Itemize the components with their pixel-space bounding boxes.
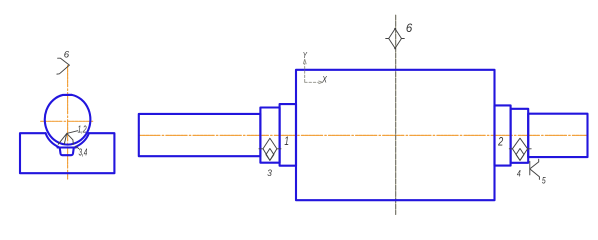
wire: left figure vertical centerline — [67, 66, 69, 180]
right bearing housing — [495, 105, 511, 165]
svg-text:4: 4 — [517, 168, 521, 178]
main cylinder body — [296, 70, 495, 200]
seat shoulder — [58, 146, 76, 148]
svg-text:2: 2 — [497, 137, 503, 149]
svg-text:3: 3 — [267, 168, 272, 179]
svg-text:1,2: 1,2 — [78, 124, 87, 135]
leader fan to contact points — [58, 131, 79, 149]
left bearing box — [260, 108, 279, 163]
coordinate axes X-Y — [303, 59, 322, 83]
right bearing box — [511, 109, 529, 163]
ball (sphere with flat top) — [45, 95, 91, 145]
block (support body with notch) — [20, 133, 114, 173]
left bearing housing — [280, 104, 296, 166]
datum diamond symbol on axis — [386, 29, 405, 49]
svg-text:Y: Y — [303, 50, 308, 60]
seat chamfer left — [46, 133, 60, 147]
node: diamond bottom dot — [394, 48, 396, 50]
svg-text:6: 6 — [406, 21, 413, 35]
svg-text:X: X — [321, 74, 327, 84]
svg-text:3,4: 3,4 — [79, 148, 88, 159]
wire: central vertical axis line — [395, 15, 397, 214]
left bearing support symbol (double diamond) — [259, 138, 281, 160]
right bearing support symbol (double diamond) — [509, 138, 531, 160]
clamp symbol (left figure, zigzag) — [57, 58, 70, 74]
right shaft journal — [528, 114, 587, 157]
wire: left figure horizontal centerline — [41, 120, 94, 122]
node: diamond top dot — [394, 28, 396, 30]
clamp symbol right (K shape) — [530, 159, 540, 179]
seat chamfer right — [75, 133, 89, 147]
relief groove cup — [60, 148, 74, 156]
svg-text:1: 1 — [284, 136, 289, 148]
svg-text:6: 6 — [64, 50, 70, 61]
left shaft journal — [139, 114, 261, 156]
wire: shaft horizontal centerline — [139, 134, 588, 136]
svg-text:5: 5 — [542, 176, 547, 186]
